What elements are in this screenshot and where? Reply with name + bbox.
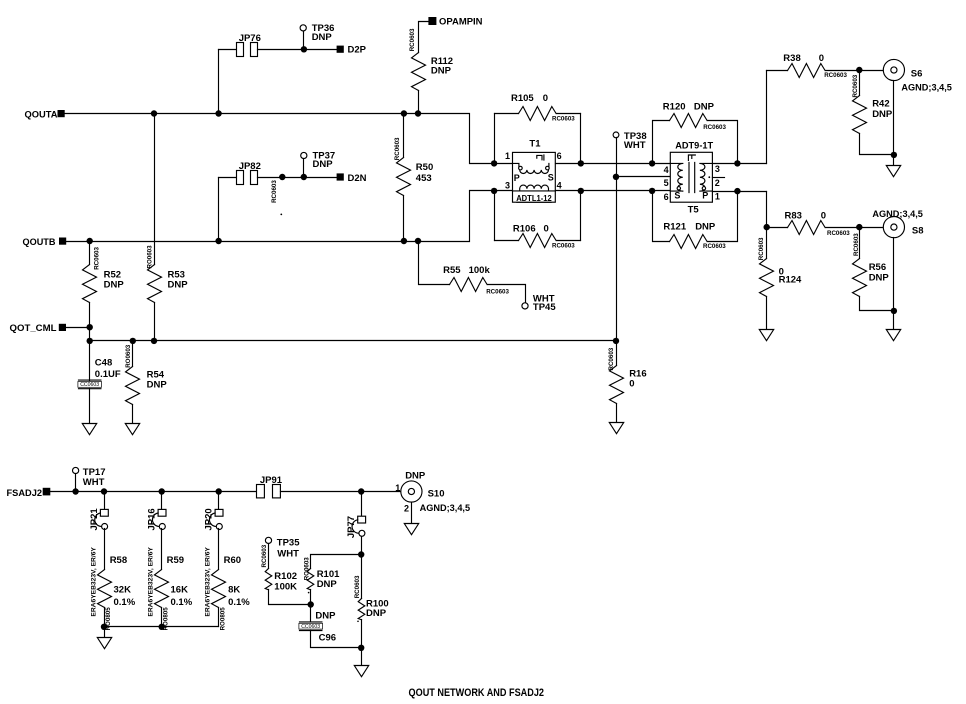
svg-text:0.1%: 0.1%: [228, 597, 250, 608]
svg-text:D2N: D2N: [348, 173, 367, 184]
svg-text:S8: S8: [912, 226, 924, 237]
testpoint TP45 circle: [522, 303, 528, 309]
svg-text:TP35: TP35: [277, 538, 300, 549]
svg-text:RC0603: RC0603: [354, 575, 361, 598]
resistor R100: [358, 599, 365, 620]
transformer T5 body: [670, 152, 712, 202]
svg-text:R83: R83: [785, 210, 802, 221]
svg-text:100k: 100k: [469, 265, 491, 276]
wire R52 top lead: [89, 242, 91, 265]
junction R83/R56: [856, 224, 862, 230]
wire R121 right lead: [708, 191, 738, 242]
resistor R52: [83, 265, 97, 303]
wire to JP76: [219, 49, 237, 51]
wire R50 top lead: [403, 114, 405, 158]
resistor R38: [788, 64, 826, 78]
wire to JP82: [219, 177, 237, 179]
svg-text:S: S: [548, 173, 554, 183]
jumper JP82 pad 1: [237, 171, 244, 185]
svg-text:RC0603: RC0603: [271, 180, 278, 203]
junction JP77: [358, 488, 364, 494]
node T5 pin2 tap dot: [708, 176, 710, 178]
wire R56 top lead: [859, 228, 861, 259]
wire R100 top lead: [361, 555, 363, 599]
svg-text:3: 3: [505, 181, 510, 191]
wire R121 left lead: [653, 191, 670, 242]
wire JP16 stem from row: [161, 492, 163, 510]
capacitor C48: [78, 380, 102, 389]
svg-text:DNP: DNP: [168, 279, 189, 290]
wire R106 row left: [495, 240, 519, 242]
connector S10: [401, 481, 422, 502]
wire TP37 stem: [303, 159, 305, 178]
svg-text:0: 0: [819, 53, 824, 64]
svg-text:RC0603: RC0603: [94, 247, 101, 270]
svg-text:QOT_CML: QOT_CML: [10, 323, 57, 334]
wire R105 right lead: [580, 114, 582, 164]
wire JP77 to R100 node: [361, 537, 363, 555]
svg-text:RC0603: RC0603: [703, 124, 726, 131]
junction line/R53: [151, 338, 157, 344]
svg-text:RC0603: RC0603: [853, 233, 860, 256]
wire TP36 stem: [303, 32, 305, 50]
wire R38 left: [767, 70, 788, 72]
wire JP76 branch vertical: [218, 50, 220, 114]
svg-text:RC0603: RC0603: [486, 288, 509, 295]
svg-text:1: 1: [715, 192, 720, 202]
connector S6: [883, 59, 904, 80]
junction QOT_CML/R52: [87, 324, 93, 330]
node QOUTA port square: [58, 110, 65, 117]
wire R60 top lead: [218, 529, 220, 570]
node QOT_CML port square: [59, 324, 66, 331]
junction TP17: [72, 488, 78, 494]
jumper JP20 link arc: [209, 513, 215, 526]
wire R105 row right: [557, 113, 581, 115]
junction R58 ground: [101, 624, 107, 630]
resistor R83: [788, 221, 826, 235]
junction pin1/R121: [734, 188, 740, 194]
svg-text:AGND;3,4,5: AGND;3,4,5: [901, 82, 952, 93]
connector S8: [883, 217, 904, 238]
jumper JP76 pad 2: [251, 43, 258, 57]
junction T1 pin3/R106: [491, 188, 497, 194]
svg-text:S6: S6: [911, 68, 923, 79]
svg-text:RC0603: RC0603: [261, 544, 268, 567]
jumper JP21 link arc: [95, 513, 101, 526]
wire R16 bottom lead: [616, 404, 618, 423]
jumper JP16 square pad: [158, 509, 166, 516]
stray dot below R100: [357, 621, 359, 623]
svg-text:0: 0: [543, 93, 548, 104]
wire R50 bottom lead: [403, 196, 405, 242]
svg-text:ERA6YEB323V, ER/6Y: ERA6YEB323V, ER/6Y: [147, 546, 154, 616]
wire R58 top lead: [104, 529, 106, 570]
jumper JP16 round pad: [159, 524, 165, 530]
resistor R102: [265, 569, 272, 590]
svg-text:WHT: WHT: [277, 548, 299, 559]
svg-text:JP91: JP91: [260, 475, 283, 486]
wire T5 pin3 row: [713, 163, 767, 165]
wire S8 ground drop: [893, 238, 895, 311]
wire R38 right to S6: [826, 70, 891, 72]
svg-text:RO0805: RO0805: [220, 607, 227, 631]
resistor R120: [670, 114, 708, 128]
wire JP91 to S10: [281, 491, 409, 493]
svg-text:R102: R102: [274, 571, 297, 582]
wire S6 ground stem: [893, 155, 895, 166]
svg-text:RC0603: RC0603: [703, 243, 726, 250]
wire R106 row right: [557, 240, 581, 242]
wire S8 ground stem: [893, 311, 895, 330]
wire FSADJ2 row to JP91: [51, 491, 257, 493]
jumper JP91 pad 2: [273, 485, 281, 498]
wire R106 left lead: [494, 191, 496, 241]
resistor R124: [760, 259, 774, 297]
svg-text:R42: R42: [872, 99, 889, 110]
junction pin3/R120: [734, 160, 740, 166]
ground below S6: [886, 166, 900, 177]
svg-text:0.1UF: 0.1UF: [95, 369, 121, 380]
junction pin6 row/R120: [649, 160, 655, 166]
svg-text:DNP: DNP: [431, 66, 452, 77]
junction QOUTB/R55: [415, 238, 421, 244]
transformer T5 left winding: [670, 163, 683, 191]
resistor R54: [126, 367, 140, 405]
svg-text:R50: R50: [416, 162, 433, 173]
resistor R112: [412, 53, 426, 91]
resistor R55: [450, 278, 488, 292]
svg-text:6: 6: [664, 192, 669, 202]
wire R105 left lead: [494, 114, 496, 164]
jumper JP77 link arc: [352, 520, 358, 533]
jumper JP77 round pad: [359, 530, 365, 536]
svg-text:DNP: DNP: [366, 608, 387, 619]
node D2P port square: [337, 46, 344, 53]
svg-text:ADT9-1T: ADT9-1T: [675, 141, 713, 152]
svg-text:RO0603: RO0603: [304, 557, 311, 581]
wire R54 top lead: [132, 341, 134, 367]
svg-text:C96: C96: [319, 633, 336, 644]
junction R83/R124: [764, 224, 770, 230]
node D2N port square: [337, 173, 344, 180]
ground below R58: [97, 638, 111, 649]
testpoint TP38 circle: [613, 132, 619, 138]
wire C48 top lead: [89, 341, 91, 381]
svg-text:T5: T5: [688, 204, 700, 215]
jumper JP16 link arc: [152, 513, 158, 526]
ground below R124: [759, 330, 773, 341]
svg-text:1: 1: [395, 483, 400, 493]
resistor R50: [397, 158, 411, 196]
resistor R42: [853, 96, 867, 134]
wire TP38 vertical to common line: [616, 138, 618, 341]
svg-text:R38: R38: [783, 53, 800, 64]
wire C96 bottom lead: [311, 631, 362, 648]
svg-text:16K: 16K: [171, 585, 189, 596]
wire R101 bottom lead: [310, 590, 312, 605]
wire R53 top lead: [154, 114, 156, 265]
svg-text:R105: R105: [511, 93, 534, 104]
ground below S8: [886, 330, 900, 341]
wire JP82 to D2N: [258, 177, 337, 179]
wire common line: [90, 340, 617, 342]
svg-text:S: S: [674, 190, 680, 200]
wire JP77 stem: [361, 492, 363, 517]
svg-text:R55: R55: [443, 265, 461, 276]
svg-text:P: P: [702, 190, 708, 200]
wire JP82 branch vertical: [218, 178, 220, 242]
svg-text:0.1%: 0.1%: [171, 597, 193, 608]
node QOUTB port square: [59, 238, 66, 245]
svg-text:DNP: DNP: [312, 32, 333, 43]
svg-text:R59: R59: [167, 555, 184, 566]
junction C96/R100 ground: [358, 645, 364, 651]
ground below R54: [125, 424, 139, 435]
wire R124 top lead: [766, 228, 768, 259]
svg-text:DNP: DNP: [695, 221, 716, 232]
resistor R60: [212, 570, 226, 608]
wire OPAMPIN to R112: [419, 22, 429, 53]
transformer T1 core mark: [537, 155, 544, 160]
wire pin3 row up to R38: [766, 71, 768, 164]
resistor R56: [853, 259, 867, 297]
wire divider ground row: [105, 626, 219, 628]
wire T5 pin1 row: [713, 191, 767, 193]
wire TP17 stem: [75, 474, 77, 492]
svg-text:QOUTB: QOUTB: [23, 237, 56, 248]
svg-text:R120: R120: [663, 102, 686, 113]
transformer T1 primary polarity circles: [519, 166, 550, 170]
svg-text:2: 2: [404, 504, 409, 514]
ground below R16: [609, 423, 623, 434]
svg-text:R124: R124: [779, 275, 802, 286]
svg-text:JP76: JP76: [239, 33, 261, 44]
resistor R53: [148, 265, 162, 303]
svg-text:RC0603: RC0603: [824, 72, 847, 79]
wire pin1 row down to R83: [766, 192, 768, 228]
svg-text:JP21: JP21: [89, 508, 100, 531]
wire ground stem below R100: [361, 648, 363, 666]
junction S6 ground: [891, 152, 897, 158]
svg-text:TP45: TP45: [533, 302, 556, 313]
svg-text:DNP: DNP: [317, 579, 338, 590]
junction line/C48: [87, 338, 93, 344]
wire QOUTB horizontal to T1 area: [67, 191, 513, 242]
svg-text:0: 0: [629, 378, 634, 389]
junction R59 ground: [159, 624, 165, 630]
svg-text:0: 0: [544, 224, 549, 235]
wire R56 bottom lead: [860, 297, 894, 311]
svg-text:0: 0: [821, 210, 826, 221]
svg-text:4: 4: [557, 181, 562, 191]
stray dot below JP82 wire: [280, 214, 282, 216]
svg-text:DNP: DNP: [315, 611, 336, 622]
jumper JP82 pad 2: [251, 171, 258, 185]
junction TP36: [301, 46, 307, 52]
svg-text:T1: T1: [529, 139, 541, 150]
testpoint TP36 circle: [300, 25, 306, 31]
svg-text:4: 4: [664, 165, 669, 175]
wire JP76 to D2P: [258, 49, 337, 51]
wire R59 top lead: [161, 529, 163, 570]
svg-text:0.1%: 0.1%: [114, 597, 136, 608]
svg-text:R58: R58: [110, 555, 127, 566]
resistor R106: [519, 234, 557, 248]
svg-text:JP16: JP16: [147, 508, 158, 530]
resistor R105: [519, 107, 557, 121]
wire QOT_CML stub: [67, 327, 90, 329]
svg-text:R56: R56: [869, 262, 886, 273]
junction R38/R42: [856, 67, 862, 73]
wire R55 left lead: [419, 242, 450, 285]
stray dot below R101: [308, 592, 310, 594]
junction TP38/T5 pin5: [613, 174, 619, 180]
svg-text:OPAMPIN: OPAMPIN: [439, 17, 483, 28]
ground below S10: [404, 524, 418, 535]
junction pin4 row/R106: [578, 188, 584, 194]
transformer T1 body: [513, 152, 556, 202]
junction pin6 row/R105: [578, 160, 584, 166]
wire R59 bottom lead: [161, 608, 163, 627]
svg-text:JP77: JP77: [346, 516, 357, 538]
svg-text:DNP: DNP: [694, 102, 715, 113]
wire C96 top lead: [310, 605, 312, 622]
svg-text:R60: R60: [224, 555, 241, 566]
svg-text:5: 5: [664, 178, 669, 188]
svg-text:RC0603: RC0603: [827, 230, 850, 237]
junction JP82 wire: [279, 174, 285, 180]
svg-text:8K: 8K: [228, 585, 240, 596]
svg-text:2: 2: [715, 178, 720, 188]
svg-text:CC0603: CC0603: [80, 382, 99, 388]
wire R42 top lead: [859, 71, 861, 96]
junction QOUTA/R50: [401, 110, 407, 116]
testpoint TP17 circle: [73, 467, 79, 473]
svg-text:AGND;3,4,5: AGND;3,4,5: [872, 209, 923, 220]
svg-text:JP20: JP20: [204, 508, 215, 530]
junction QOUTB/JP82: [215, 238, 221, 244]
svg-text:ERA6YEB323V, ER/6Y: ERA6YEB323V, ER/6Y: [90, 546, 97, 616]
wire T5 pin2 stub: [713, 177, 725, 179]
svg-text:WHT: WHT: [624, 140, 646, 151]
ground below R100: [354, 666, 368, 677]
junction pin4 row/R121: [649, 188, 655, 194]
svg-text:QOUT NETWORK AND FSADJ2: QOUT NETWORK AND FSADJ2: [409, 687, 545, 699]
wire QOUTA horizontal to T1 area: [65, 114, 513, 164]
svg-text:453: 453: [416, 173, 432, 184]
svg-text:RO0603: RO0603: [125, 344, 132, 368]
jumper JP20 round pad: [216, 524, 222, 530]
wire ground stem below R58: [104, 627, 106, 638]
wire R83 left: [767, 227, 788, 229]
wire R124 bottom lead: [766, 297, 768, 330]
svg-text:FSADJ2: FSADJ2: [7, 488, 43, 499]
junction QOUTA/JP76 branch: [215, 110, 221, 116]
jumper JP21 square pad: [100, 509, 108, 516]
transformer T5 core mark: [688, 155, 695, 160]
svg-text:6: 6: [557, 151, 562, 161]
svg-text:DNP: DNP: [104, 279, 125, 290]
wire T1 pin4 to T5 pin6: [556, 190, 671, 192]
wire R101 top lead: [311, 555, 362, 569]
resistor R58: [98, 570, 112, 608]
svg-text:R121: R121: [663, 221, 686, 232]
wire R120 right lead: [708, 121, 738, 164]
svg-text:ERA6YEB323V, ER/6Y: ERA6YEB323V, ER/6Y: [204, 546, 211, 616]
resistor R121: [670, 235, 708, 249]
capacitor C96: [299, 622, 323, 631]
svg-text:RC0603: RC0603: [394, 137, 401, 160]
testpoint TP35 circle: [265, 537, 271, 543]
wire R120 left lead: [653, 121, 670, 164]
wire R16 top lead: [616, 341, 618, 366]
junction QOUTA/R53: [151, 110, 157, 116]
jumper JP20 square pad: [215, 509, 223, 516]
svg-text:R106: R106: [513, 224, 536, 235]
resistor R16: [610, 366, 624, 404]
svg-text:RC0603: RC0603: [552, 116, 575, 123]
svg-text:RC0603: RC0603: [852, 74, 859, 97]
wire R112 bottom lead: [418, 91, 420, 114]
wire R53 bottom lead: [154, 303, 156, 341]
svg-text:D2P: D2P: [348, 44, 367, 55]
svg-text:S10: S10: [428, 489, 445, 500]
wire R42 bottom lead: [860, 134, 894, 155]
svg-text:RC0603: RC0603: [409, 28, 416, 51]
testpoint TP37 circle: [301, 152, 307, 158]
svg-text:RC0603: RC0603: [758, 237, 765, 260]
transformer T5 right winding: [700, 163, 713, 191]
wire R58 bottom lead: [104, 608, 106, 627]
svg-text:RC0603: RC0603: [552, 243, 575, 250]
wire T5 pin5 row: [617, 176, 678, 178]
svg-text:ADTL1-12: ADTL1-12: [516, 194, 552, 203]
svg-text:RO0603: RO0603: [147, 245, 154, 269]
svg-text:32K: 32K: [114, 585, 132, 596]
svg-text:3: 3: [715, 164, 720, 174]
wire R102 top lead: [268, 544, 270, 569]
wire R54 bottom lead: [132, 405, 134, 424]
junction QOUTA/R112: [415, 110, 421, 116]
wire R105 row left: [495, 113, 519, 115]
wire R60 bottom lead: [218, 608, 220, 627]
junction JP16: [159, 488, 165, 494]
wire R52 bottom lead: [89, 303, 91, 341]
wire R106 right lead: [580, 191, 582, 241]
svg-text:DNP: DNP: [313, 159, 334, 170]
svg-text:P: P: [514, 173, 520, 183]
transformer T1 primary winding: [513, 163, 549, 173]
svg-text:RC0603: RC0603: [608, 347, 615, 370]
node OPAMPIN port square: [428, 17, 436, 25]
junction QOUTB/R50: [401, 238, 407, 244]
ground below C48: [82, 424, 96, 435]
svg-text:DNP: DNP: [147, 380, 168, 391]
svg-text:AGND;3,4,5: AGND;3,4,5: [420, 503, 471, 514]
transformer T5 polarity circles: [677, 187, 706, 190]
junction line/R54: [130, 338, 136, 344]
resistor R59: [155, 570, 169, 608]
wire S10 ground stem: [411, 503, 413, 524]
svg-text:CC0603: CC0603: [301, 624, 320, 630]
junction TP37: [301, 174, 307, 180]
svg-text:DNP: DNP: [869, 272, 890, 283]
junction R102/R101/C96: [308, 601, 314, 607]
svg-text:DNP: DNP: [872, 109, 893, 120]
svg-text:JP82: JP82: [239, 161, 261, 172]
wire JP20 stem from row: [218, 492, 220, 510]
